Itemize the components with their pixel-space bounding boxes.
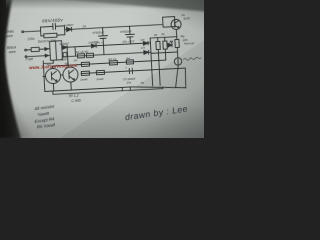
lamp L1 indicator xyxy=(174,58,182,66)
dark table background xyxy=(0,0,204,138)
capacitor C5 xyxy=(128,68,130,73)
diode D5 xyxy=(144,50,149,54)
wire centre tap drop xyxy=(67,47,68,67)
svg-text:25v: 25v xyxy=(125,80,131,84)
resistor R8 10K trimmer xyxy=(175,39,179,47)
resistor R4 xyxy=(126,60,133,64)
svg-text:Trimmer: Trimmer xyxy=(183,41,195,46)
svg-text:1n4007: 1n4007 xyxy=(88,40,98,45)
wire bus stub xyxy=(43,60,53,64)
wire top rail xyxy=(72,25,162,30)
wire secondary B xyxy=(62,52,151,57)
capacitor C2 (filter) xyxy=(129,26,131,34)
schematic ink xyxy=(4,10,205,131)
transistor Q3 xyxy=(171,19,182,30)
bottom-right shadow xyxy=(60,40,204,138)
signature drawn by Lee xyxy=(124,104,188,123)
wire AB link xyxy=(74,47,76,56)
wire driver row xyxy=(81,68,185,73)
svg-text:1n4007: 1n4007 xyxy=(63,23,74,28)
resistor R3a xyxy=(109,61,117,65)
resistor R10 (snubber bleeder) xyxy=(41,31,44,36)
svg-text:C 945: C 945 xyxy=(71,98,81,102)
bottom band shade xyxy=(0,0,1,1)
resistor R3 xyxy=(81,62,89,66)
transistor TR2 xyxy=(63,67,79,83)
resistor R5 (vertical) xyxy=(157,38,159,42)
capacitor C1 (filter) xyxy=(102,28,104,36)
wire emitter drop xyxy=(175,29,178,39)
svg-text:wire: wire xyxy=(9,50,16,54)
svg-text:25v + C2: 25v + C2 xyxy=(121,39,135,44)
regulator box U1 xyxy=(163,17,176,28)
right side tone xyxy=(0,0,1,1)
svg-text:47000uF: 47000uF xyxy=(92,30,104,35)
diode D3 xyxy=(91,44,96,48)
wire input lead xyxy=(24,30,41,33)
wire jog xyxy=(121,87,123,90)
resistor R1 xyxy=(77,54,84,58)
node input terminal white xyxy=(22,31,24,33)
wire rectifier bus xyxy=(150,38,153,86)
transformer T1 xyxy=(50,41,63,61)
svg-text:R3 1K: R3 1K xyxy=(108,57,118,61)
svg-text:C1R: C1R xyxy=(61,57,67,61)
label WHITE WIRE xyxy=(4,30,14,39)
svg-text:R4: R4 xyxy=(126,56,130,60)
svg-text:1watt: 1watt xyxy=(80,77,88,81)
wire left down bus xyxy=(43,61,45,91)
fuse F1 xyxy=(27,49,32,51)
svg-text:1n4007: 1n4007 xyxy=(59,42,69,47)
wire R3R4 row xyxy=(52,60,165,66)
squiggle annotation xyxy=(183,57,201,61)
wire row drop xyxy=(185,68,187,88)
resistor R6 (vertical) xyxy=(164,37,166,41)
right cluster top wire xyxy=(150,37,177,38)
capacitor C6 68n/400v (snubber) xyxy=(40,26,52,30)
resistor R5 xyxy=(81,71,89,75)
node input terminal black xyxy=(25,49,27,51)
svg-text:R1 1K R2: R1 1K R2 xyxy=(76,50,89,55)
paper sheet xyxy=(5,0,210,142)
wire ground rail xyxy=(45,84,186,95)
svg-text:220v: 220v xyxy=(26,37,35,41)
transistor TR1 xyxy=(45,68,61,84)
svg-text:TR 1,2: TR 1,2 xyxy=(68,94,79,99)
svg-text:wire: wire xyxy=(6,34,13,38)
svg-text:47000uF: 47000uF xyxy=(120,29,132,34)
bottom-left shadow near edge xyxy=(0,60,40,138)
diode D4 xyxy=(143,41,148,45)
paper top soft band xyxy=(6,0,204,9)
wire primary return xyxy=(27,55,50,56)
cluster bottom wire xyxy=(151,52,178,53)
wire return loop xyxy=(53,85,163,94)
vertical from cluster xyxy=(158,53,160,85)
resistor R6 xyxy=(96,70,104,74)
notes handwriting xyxy=(32,94,82,130)
diode D2 xyxy=(62,45,67,49)
LED D6 xyxy=(168,43,172,47)
node input terminal 2 xyxy=(25,56,27,58)
wire secondary A xyxy=(62,43,151,48)
label BLACK WIRE xyxy=(7,45,18,54)
coupling box xyxy=(63,52,67,57)
svg-text:2A: 2A xyxy=(81,24,86,28)
resistor R2 xyxy=(86,53,93,57)
diode D1 on top rail xyxy=(65,29,67,31)
svg-text:1watt: 1watt xyxy=(96,77,104,81)
